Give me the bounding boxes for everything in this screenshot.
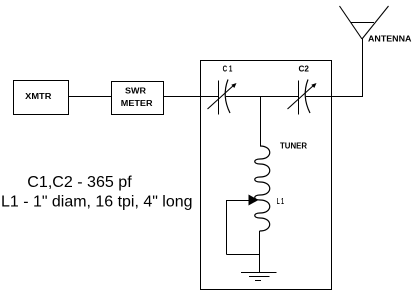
node junction wire down to inductor [260, 96, 262, 146]
capacitor C1 (variable) [208, 80, 237, 115]
wire antenna vertical stem [362, 39, 364, 97]
svg-text:C 1: C 1 [223, 65, 233, 74]
capacitor C2 (variable) [288, 80, 317, 115]
tap wire vertical [226, 200, 228, 255]
XMTR block box [14, 81, 69, 115]
SWR METER block box [112, 82, 164, 115]
inductor L1 coil [255, 146, 270, 231]
svg-text:ANTENNA: ANTENNA [368, 35, 412, 44]
svg-text:L 1: L 1 [277, 197, 284, 206]
svg-text:TUNER: TUNER [280, 142, 307, 151]
wire C1 to C2 with junction [226, 96, 299, 98]
tuner enclosure box [201, 61, 332, 290]
tap arrow into L1 [249, 195, 259, 206]
wire SWR meter to C1 [164, 96, 219, 98]
wire XMTR to SWR meter [69, 96, 112, 98]
ground symbol [241, 273, 277, 281]
wire C2 to antenna [306, 96, 363, 98]
svg-text:SWR: SWR [125, 87, 146, 96]
antenna symbol [340, 6, 389, 39]
tap wire horizontal from arrow [227, 200, 250, 202]
svg-text:C1,C2 - 365 pf: C1,C2 - 365 pf [27, 174, 132, 191]
svg-text:XMTR: XMTR [25, 92, 51, 101]
svg-text:C2: C2 [299, 65, 310, 74]
tap wire bottom horizontal [227, 254, 260, 256]
wire coil bottom to ground [259, 231, 261, 273]
svg-text:METER: METER [121, 99, 153, 108]
svg-text:L1 - 1" diam, 16 tpi, 4" long: L1 - 1" diam, 16 tpi, 4" long [1, 194, 193, 211]
